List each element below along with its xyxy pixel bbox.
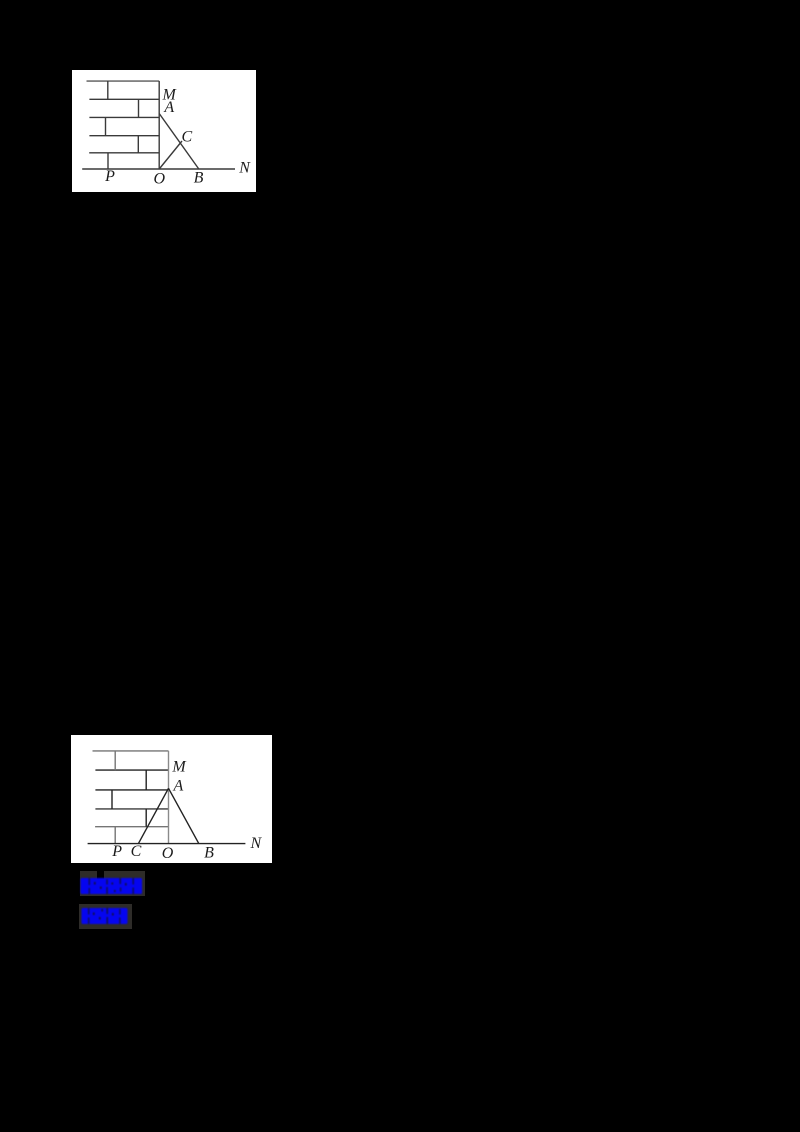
svg-text:P: P — [104, 168, 115, 185]
svg-text:M: M — [171, 758, 187, 775]
svg-text:O: O — [162, 845, 174, 862]
svg-text:C: C — [181, 128, 192, 145]
svg-text:B: B — [194, 170, 204, 187]
svg-text:A: A — [163, 99, 174, 116]
svg-text:C: C — [131, 843, 142, 860]
svg-text:B: B — [204, 844, 214, 861]
svg-text:N: N — [238, 160, 251, 177]
svg-text:P: P — [111, 843, 122, 860]
svg-text:A: A — [173, 778, 184, 795]
svg-text:O: O — [154, 171, 166, 188]
svg-text:N: N — [249, 835, 262, 852]
